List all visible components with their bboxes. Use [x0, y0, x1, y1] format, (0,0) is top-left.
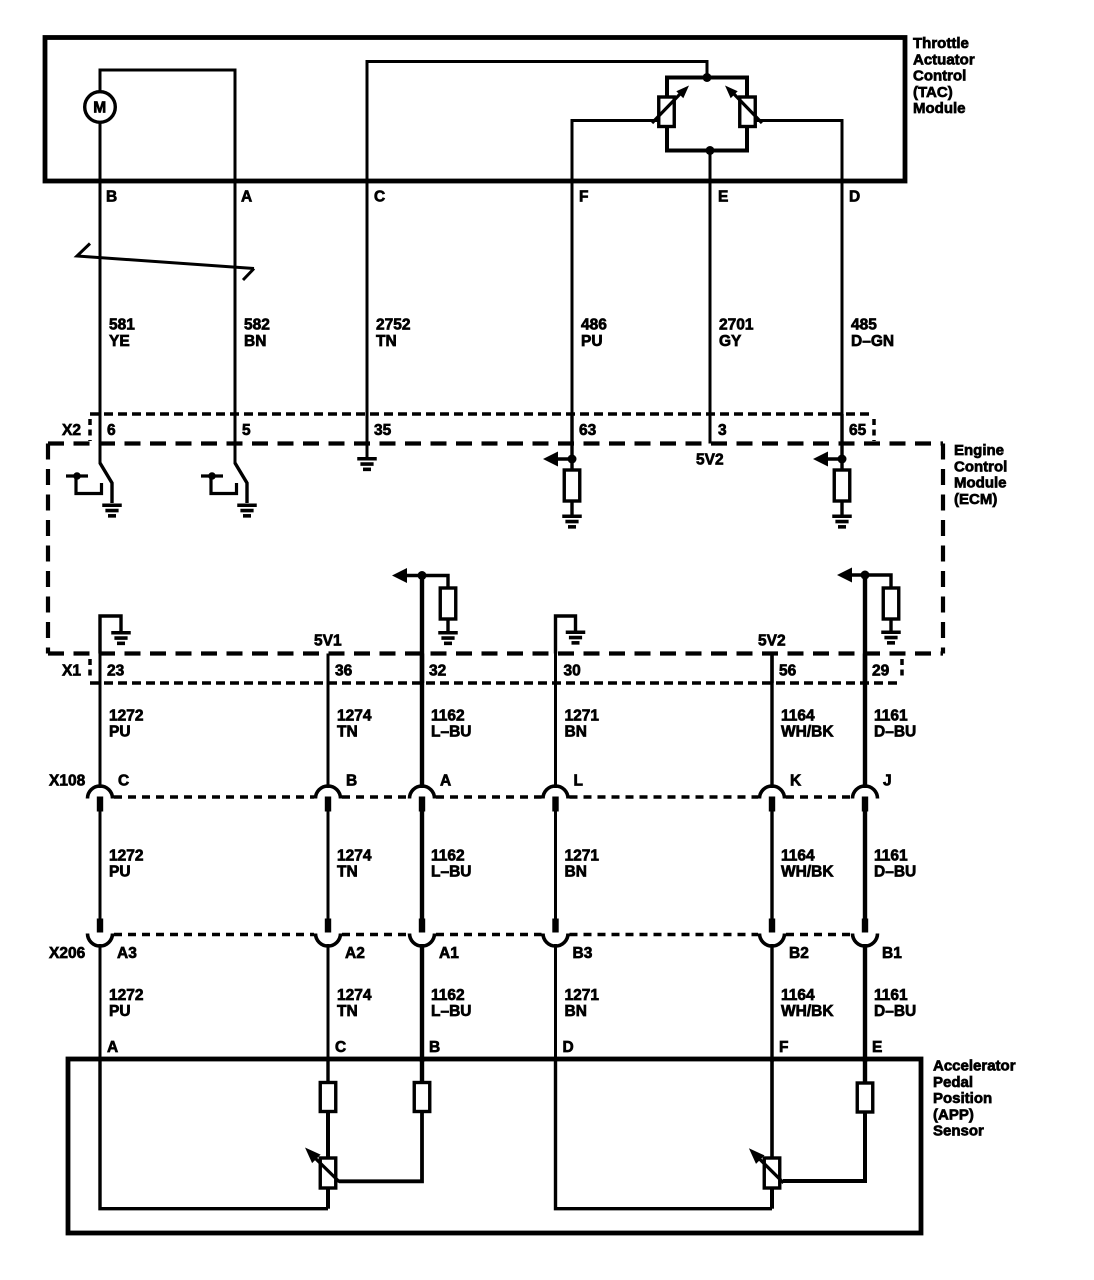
- svg-text:E: E: [872, 1039, 882, 1056]
- svg-text:TN: TN: [337, 864, 358, 881]
- svg-text:PU: PU: [109, 1003, 131, 1020]
- svg-text:32: 32: [429, 663, 446, 680]
- svg-text:1274: 1274: [337, 848, 372, 865]
- X206 terminal B1: [862, 919, 868, 933]
- wire 1162 X108 to X206: [420, 812, 424, 920]
- wire 1162 inside ECM: [420, 576, 424, 684]
- svg-text:1274: 1274: [337, 708, 372, 725]
- svg-text:A1: A1: [439, 945, 459, 962]
- svg-text:B1: B1: [882, 945, 902, 962]
- svg-text:BN: BN: [565, 1003, 587, 1020]
- svg-text:23: 23: [107, 663, 125, 680]
- TP sensor bridge bottom bar: [665, 149, 749, 153]
- motor M1: [85, 92, 116, 123]
- svg-text:X108: X108: [49, 773, 86, 790]
- ground for Q1: [102, 503, 122, 507]
- svg-text:PU: PU: [581, 333, 603, 350]
- sensor return arrow 486: [554, 457, 572, 460]
- svg-text:D–BU: D–BU: [874, 724, 916, 741]
- pot1 wiper arrow: [314, 1157, 340, 1182]
- svg-text:D–BU: D–BU: [874, 864, 916, 881]
- svg-text:WH/BK: WH/BK: [781, 864, 834, 881]
- ECM module dashed box bottom: [48, 651, 943, 655]
- wire 1162 X1 to X108: [420, 654, 424, 789]
- TP sensor bridge top bar: [665, 76, 749, 80]
- svg-text:L–BU: L–BU: [431, 1003, 471, 1020]
- pull-down resistor R1: [564, 470, 580, 501]
- junction 485: [838, 455, 847, 464]
- wire C vertical: [366, 62, 369, 458]
- svg-text:D: D: [563, 1039, 574, 1056]
- ECM module dashed box top: [48, 441, 943, 445]
- svg-text:A: A: [241, 189, 252, 206]
- wire F horizontal: [571, 119, 659, 122]
- svg-text:B: B: [429, 1039, 440, 1056]
- X108 terminal A: [410, 786, 435, 799]
- wire 1272 X206 to APP: [99, 944, 102, 1062]
- X206 terminal A1: [419, 919, 425, 933]
- TP sensor bridge left side: [665, 78, 669, 151]
- svg-text:1272: 1272: [109, 848, 143, 865]
- wire 1271 X108 to X206: [554, 812, 557, 920]
- svg-text:1271: 1271: [565, 987, 600, 1004]
- driver Q1 control gate: [66, 474, 88, 477]
- svg-text:L–BU: L–BU: [431, 864, 471, 881]
- driver Q1 wire: [99, 414, 102, 464]
- svg-text:1161: 1161: [874, 987, 908, 1004]
- ECM module dashed box right: [941, 444, 945, 654]
- svg-text:L–BU: L–BU: [431, 724, 471, 741]
- svg-text:2701: 2701: [719, 317, 754, 334]
- svg-text:1162: 1162: [431, 848, 465, 865]
- svg-text:E: E: [718, 189, 728, 206]
- svg-text:582: 582: [244, 317, 270, 334]
- connector X1 dotted line: [90, 681, 902, 685]
- svg-text:1271: 1271: [565, 848, 600, 865]
- driver Q2 wire: [234, 414, 237, 464]
- X206 terminal B3: [552, 919, 558, 933]
- wire D horizontal: [755, 119, 843, 122]
- svg-text:J: J: [883, 773, 892, 790]
- svg-text:BN: BN: [565, 724, 587, 741]
- svg-text:B2: B2: [789, 945, 809, 962]
- wire 1161 X108 to X206: [863, 812, 867, 920]
- pull-up resistor R4: [883, 588, 899, 619]
- ground for 2752: [357, 457, 377, 461]
- svg-text:D–GN: D–GN: [851, 333, 894, 350]
- svg-text:3: 3: [718, 422, 727, 439]
- svg-text:F: F: [579, 189, 588, 206]
- wire A to pot1 bottom: [100, 1059, 328, 1209]
- ground for R1: [562, 514, 582, 518]
- wire 1274 stub 5V1: [327, 654, 330, 684]
- svg-text:581: 581: [109, 317, 135, 334]
- connector X1 right end mark: [900, 659, 904, 680]
- junction TP top: [703, 73, 712, 82]
- svg-text:L: L: [574, 773, 583, 790]
- wire 1272 X108 to X206: [99, 812, 102, 920]
- svg-text:X1: X1: [62, 663, 81, 680]
- junction 486: [568, 455, 577, 464]
- svg-text:485: 485: [851, 317, 877, 334]
- svg-text:2752: 2752: [376, 317, 410, 334]
- wire 1271 X1 to X108: [554, 654, 557, 789]
- svg-text:36: 36: [335, 663, 353, 680]
- wire 2752 into ECM: [366, 414, 369, 457]
- svg-text:1272: 1272: [109, 987, 143, 1004]
- APP potentiometer 1: [320, 1158, 336, 1188]
- wire 1164 X108 to X206: [770, 812, 773, 920]
- svg-text:1274: 1274: [337, 987, 372, 1004]
- svg-text:K: K: [790, 773, 802, 790]
- svg-text:TN: TN: [337, 724, 358, 741]
- wire 2701 stub 5V2: [709, 414, 712, 444]
- wire 1161 to pull-up: [865, 575, 891, 588]
- wire A inside TAC: [234, 70, 237, 444]
- wire B from motor: [99, 122, 102, 443]
- X206 terminal A2: [325, 919, 331, 933]
- svg-text:YE: YE: [109, 333, 130, 350]
- X108 terminal J: [853, 786, 878, 799]
- ground for R4: [881, 630, 901, 634]
- X108 terminal B: [316, 786, 341, 799]
- TP2 wiper arrow: [733, 93, 762, 123]
- connector X2 right end mark: [872, 419, 876, 441]
- wire 1164 stub 5V2: [770, 654, 773, 684]
- wire pot2 to bottom: [770, 1188, 774, 1209]
- wire 1274 X206 to APP: [327, 944, 330, 1062]
- driver Q2 switch arm: [235, 463, 247, 503]
- wire 485 into ECM: [840, 414, 843, 470]
- svg-text:1162: 1162: [431, 708, 465, 725]
- X108 terminal C: [88, 786, 113, 799]
- svg-text:56: 56: [779, 663, 797, 680]
- svg-text:6: 6: [107, 422, 116, 439]
- fixed resistor R6 on wire B: [420, 1059, 424, 1083]
- wire C to pot1: [326, 1112, 330, 1159]
- APP sensor box: [68, 1059, 921, 1233]
- junction 1162: [418, 571, 427, 580]
- svg-text:1164: 1164: [781, 987, 815, 1004]
- fixed resistor R7 on wire E: [863, 1059, 867, 1083]
- TP1 wiper arrow: [652, 93, 681, 123]
- ground for Q2: [237, 503, 257, 507]
- svg-text:D–BU: D–BU: [874, 1003, 916, 1020]
- wire R4 to ground: [889, 619, 892, 631]
- wire motor top loop: [99, 69, 237, 72]
- wire pot1 to bottom: [326, 1188, 330, 1209]
- X108 terminal L: [543, 786, 568, 799]
- svg-text:X206: X206: [49, 945, 86, 962]
- wire R1 to ground: [570, 501, 573, 515]
- svg-text:30: 30: [564, 663, 581, 680]
- ground for R3: [438, 631, 458, 635]
- svg-text:C: C: [374, 189, 385, 206]
- svg-text:BN: BN: [565, 864, 587, 881]
- svg-text:A2: A2: [345, 945, 365, 962]
- svg-text:BN: BN: [244, 333, 266, 350]
- X108 terminal K: [760, 786, 785, 799]
- X206 terminal A3: [97, 919, 103, 933]
- svg-text:WH/BK: WH/BK: [781, 724, 834, 741]
- connector X206 dotted line: [114, 933, 314, 937]
- X206 terminal B2: [769, 919, 775, 933]
- wire D vertical: [841, 121, 844, 444]
- svg-text:B: B: [346, 773, 357, 790]
- svg-text:F: F: [779, 1039, 788, 1056]
- svg-text:486: 486: [581, 317, 607, 334]
- pull-down resistor R2: [834, 470, 850, 501]
- wire 1271 X206 to APP: [554, 944, 557, 1062]
- wire 1162 to pull-up: [422, 576, 448, 589]
- throttle position sensor 1 (variable resistor): [659, 97, 675, 127]
- connector X2 dotted line: [90, 412, 874, 416]
- ground for 1272: [111, 631, 131, 635]
- wire 1161 X1 to X108: [863, 654, 867, 789]
- junction 1161: [861, 571, 870, 580]
- svg-text:PU: PU: [109, 724, 131, 741]
- fixed resistor R5 on wire C: [326, 1059, 329, 1083]
- wire 1274 X1 to X108: [327, 654, 330, 789]
- wire 1272 X1 to X108: [99, 654, 102, 789]
- sensor return arrow 1162: [403, 574, 422, 577]
- svg-text:WH/BK: WH/BK: [781, 1003, 834, 1020]
- wire 1272 ground hook: [100, 616, 121, 654]
- svg-text:5V1: 5V1: [314, 633, 342, 650]
- svg-text:1164: 1164: [781, 708, 815, 725]
- pull-up resistor R3: [440, 588, 456, 619]
- svg-text:1162: 1162: [431, 987, 465, 1004]
- connector X1 left end mark: [88, 659, 92, 680]
- svg-text:X2: X2: [62, 422, 81, 439]
- connector X108 dotted line: [114, 795, 314, 799]
- svg-text:1161: 1161: [874, 848, 908, 865]
- svg-text:TN: TN: [376, 333, 397, 350]
- svg-text:TN: TN: [337, 1003, 358, 1020]
- ground for 1271: [566, 630, 586, 634]
- svg-text:A: A: [107, 1039, 118, 1056]
- svg-text:A: A: [440, 773, 451, 790]
- node TP supply stub: [706, 62, 709, 80]
- wire 1164 X1 to X108: [770, 654, 773, 789]
- driver Q2 control gate: [201, 474, 223, 477]
- svg-text:GY: GY: [719, 333, 742, 350]
- wire R3 to ground: [446, 619, 449, 631]
- connector X2 left end mark: [88, 419, 92, 441]
- wire 486 into ECM: [570, 414, 573, 470]
- svg-text:C: C: [335, 1039, 346, 1056]
- wire E from bridge: [709, 151, 712, 444]
- svg-text:1271: 1271: [565, 708, 600, 725]
- junction TP bottom: [706, 146, 715, 155]
- svg-text:63: 63: [579, 422, 597, 439]
- driver Q1 switch arm: [100, 463, 112, 503]
- wire 1161 inside ECM: [863, 575, 867, 683]
- pot2 wiper arrow: [758, 1158, 784, 1183]
- svg-text:1164: 1164: [781, 848, 815, 865]
- wire motor to node: [99, 70, 102, 92]
- svg-text:PU: PU: [109, 864, 131, 881]
- wire 1161 X206 to APP: [863, 944, 867, 1062]
- ECM module dashed box left: [46, 444, 50, 654]
- svg-text:B: B: [106, 189, 117, 206]
- wire E to pot2 wiper: [783, 1112, 865, 1181]
- svg-text:1161: 1161: [874, 708, 908, 725]
- twisted pair crossing arrow: [77, 244, 254, 269]
- svg-text:5V2: 5V2: [758, 633, 786, 650]
- wire 1164 X206 to APP: [770, 944, 773, 1062]
- sensor return arrow 485: [824, 457, 842, 460]
- wire 1162 X206 to APP: [420, 944, 424, 1062]
- TP sensor bridge right side: [745, 78, 749, 151]
- svg-text:C: C: [118, 773, 129, 790]
- svg-text:5V2: 5V2: [696, 452, 724, 469]
- ground for R2: [832, 514, 852, 518]
- wire F vertical: [571, 121, 574, 444]
- svg-text:5: 5: [242, 422, 251, 439]
- APP potentiometer 2: [764, 1158, 780, 1188]
- svg-text:65: 65: [849, 422, 867, 439]
- wire F to pot2: [770, 1059, 774, 1158]
- throttle position sensor 2 (variable resistor): [740, 97, 756, 127]
- wire C horizontal inside TAC: [366, 60, 709, 63]
- sensor return arrow 1161: [848, 573, 865, 576]
- svg-text:1272: 1272: [109, 708, 143, 725]
- svg-text:35: 35: [374, 422, 392, 439]
- svg-text:A3: A3: [117, 945, 137, 962]
- TAC module box: [45, 38, 905, 182]
- wire R2 to ground: [840, 501, 843, 515]
- wire B to pot1 wiper: [339, 1112, 422, 1182]
- svg-text:B3: B3: [573, 945, 593, 962]
- svg-text:M: M: [93, 100, 106, 117]
- wire D to pot2 bottom: [556, 1059, 773, 1209]
- svg-text:D: D: [849, 189, 860, 206]
- wire 1274 X108 to X206: [327, 812, 330, 920]
- wire 1271 ground hook: [556, 616, 576, 654]
- svg-text:29: 29: [872, 663, 890, 680]
